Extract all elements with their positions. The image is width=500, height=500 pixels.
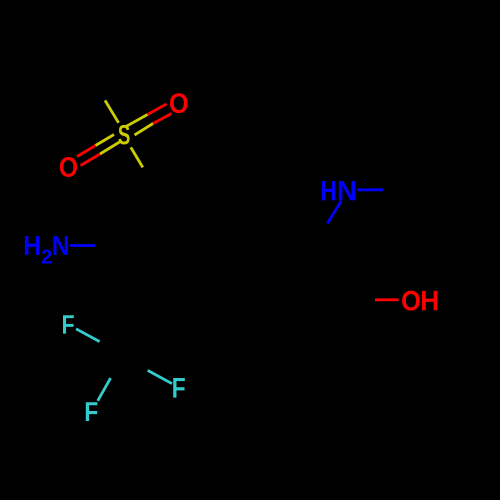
bond S=O1 line B yellow half	[135, 124, 154, 136]
bond S=O1 line A red half	[148, 104, 167, 115]
atom F3	[173, 378, 185, 398]
bond C-F3 (F half, cyan)	[148, 370, 172, 383]
atom N methylamino: H of HN	[322, 181, 335, 200]
atom S (sulfonyl S)	[118, 125, 129, 145]
bond C-F1 (F half, cyan)	[76, 329, 100, 342]
bond S=O2 line D red half	[81, 154, 101, 166]
atom N methylamino: N of HN	[339, 181, 355, 200]
atom F1	[63, 315, 74, 333]
atom N amine: subscript 2 of H2N	[42, 250, 51, 264]
bond HN-CH3 (N half, blue)	[358, 188, 384, 191]
bond S=O1 line B red half	[153, 114, 172, 124]
atom N amine: H of H2N	[25, 236, 40, 255]
bond H2N-C (N half, blue)	[70, 244, 95, 247]
atom O hydroxyl: O of OH	[402, 291, 420, 311]
bond C-OH (O half, red)	[375, 298, 399, 301]
bond S-CH3 (S half, yellow)	[105, 100, 119, 122]
bond S=O2 line C yellow half	[96, 135, 115, 146]
atom N amine: N of H2N	[53, 236, 67, 255]
bond C-F2 (F half, cyan)	[98, 378, 111, 401]
atom O2 (sulfonyl O lower)	[60, 157, 77, 177]
atom O1 (sulfonyl O upper)	[170, 93, 188, 113]
atom O hydroxyl: H of OH	[422, 291, 437, 310]
bond S=O1 line A yellow half	[126, 115, 148, 127]
bond S=O2 line C red half	[77, 146, 96, 157]
bond S=O2 line D yellow half	[100, 142, 120, 154]
bond S-ring (S half, yellow)	[131, 147, 143, 167]
bond HN-CH2 diagonal (N half, blue)	[327, 201, 341, 223]
atom F2	[86, 402, 98, 421]
